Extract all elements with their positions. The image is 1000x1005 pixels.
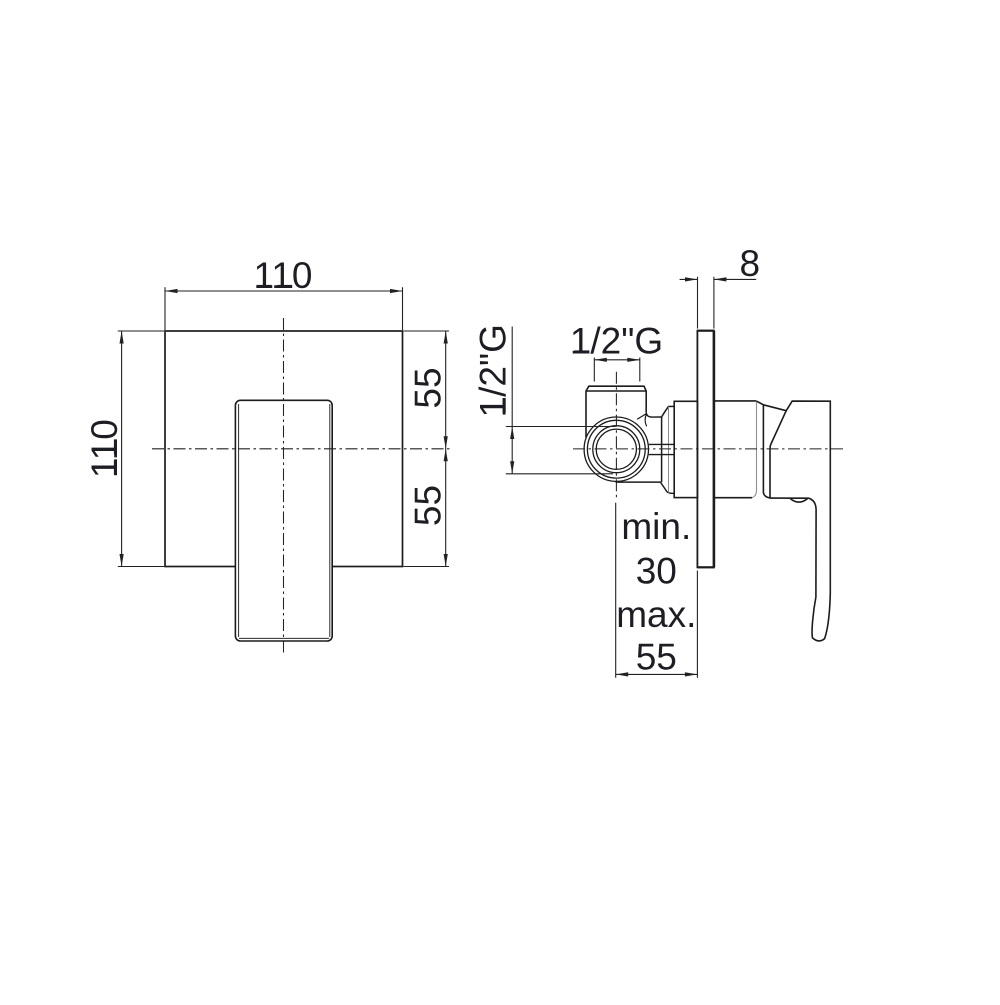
svg-text:110: 110	[84, 419, 125, 478]
flange shoulder	[662, 406, 675, 482]
svg-text:1/2"G: 1/2"G	[473, 324, 514, 417]
neck outlet lines	[649, 444, 674, 454]
flange back thin edge	[668, 407, 670, 493]
handle lever side view	[763, 401, 830, 641]
svg-text:1/2"G: 1/2"G	[570, 321, 663, 362]
cartridge sleeve rectangle	[674, 401, 697, 497]
vertical centerline of top port	[615, 372, 617, 500]
dimension 1/2"G side inlet (rotated)	[506, 327, 616, 474]
body fillet saddle arcs top right	[637, 413, 647, 426]
dimension 1/2"G top port	[594, 358, 640, 382]
dimension 110 left (height of plate)	[118, 331, 164, 567]
handle base right edge (light)	[752, 401, 757, 498]
port-to-flange fillet	[646, 412, 661, 417]
svg-text:30: 30	[636, 551, 677, 592]
handle collar side view	[757, 401, 770, 498]
dimension 55 upper right	[404, 331, 450, 567]
dimension 8 plate thickness	[680, 277, 757, 329]
handle base escutcheon side view	[715, 401, 757, 498]
svg-text:8: 8	[740, 243, 761, 284]
body bottom edge	[616, 482, 674, 493]
horizontal centerline side view	[573, 448, 846, 450]
horizontal centerline front view	[152, 448, 450, 450]
svg-text:110: 110	[254, 255, 313, 296]
svg-text:55: 55	[408, 367, 449, 408]
handle front inner highlight lines	[239, 404, 330, 638]
dimension min 30 max 55 depth	[616, 503, 698, 678]
svg-text:min.: min.	[621, 506, 691, 547]
svg-text:max.: max.	[616, 594, 696, 635]
svg-text:55: 55	[408, 485, 449, 526]
handle front view	[235, 400, 332, 641]
wall plate side view	[697, 331, 714, 568]
top port 1/2"G side view	[586, 386, 646, 437]
wall plate square front view	[165, 331, 403, 567]
valve body inlet boss circles	[584, 417, 648, 481]
svg-text:55: 55	[636, 637, 677, 678]
dimension 110 top (width of plate)	[165, 287, 403, 330]
vertical centerline front view	[283, 318, 285, 653]
